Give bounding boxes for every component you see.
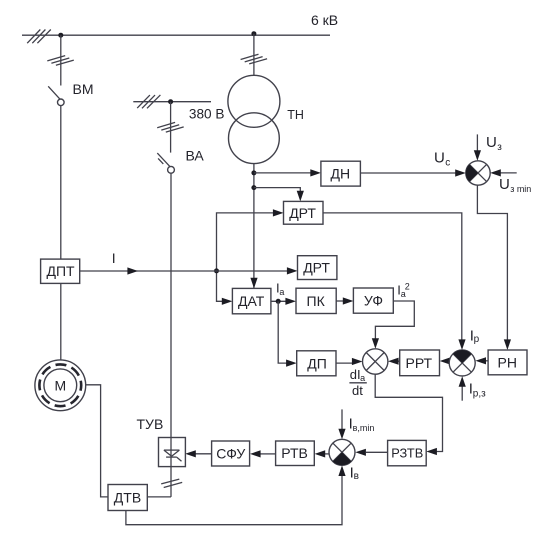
svg-text:ДРТ: ДРТ	[303, 260, 330, 276]
arrow Uz min into summer right	[490, 169, 501, 176]
node DAT output junction	[276, 299, 281, 304]
svg-text:ВМ: ВМ	[73, 81, 94, 97]
thyristor exciter TUV	[137, 416, 186, 467]
svg-text:6 кВ: 6 кВ	[311, 12, 338, 28]
wire motor to DTV	[86, 385, 108, 497]
label Uc	[434, 149, 450, 168]
node bus-VM junction	[58, 33, 63, 38]
label Uz min	[499, 176, 531, 194]
arrow into multiplier left	[352, 358, 363, 365]
wire TN to DRT1 top	[254, 188, 300, 193]
arrow into PK left	[285, 298, 296, 305]
node transformer junction on 6kV bus	[251, 31, 256, 36]
wire U summer to RN	[477, 185, 507, 341]
arrow into sum2 top	[458, 339, 465, 350]
motor M	[35, 360, 86, 411]
switch VA	[157, 147, 204, 173]
block RTV	[276, 441, 315, 466]
svg-text:р: р	[474, 334, 480, 345]
multiplier U2 (dIa/dt)	[363, 349, 388, 374]
wire multiplier output to RZTV	[375, 374, 442, 451]
label Ia2	[397, 281, 410, 299]
svg-text:U: U	[486, 134, 497, 151]
svg-text:U: U	[434, 149, 445, 166]
svg-text:РЗТВ: РЗТВ	[391, 446, 423, 461]
svg-text:c: c	[445, 157, 450, 168]
block DRT1	[284, 201, 324, 224]
arrow into DAT top	[250, 278, 257, 289]
arrow into sum3 right	[355, 449, 366, 456]
arrow into UF left	[343, 297, 354, 304]
arrow into sum3 bottom	[338, 465, 345, 476]
wire TN to DN	[254, 172, 312, 174]
wire Iv.min input	[341, 409, 343, 430]
svg-text:ДАТ: ДАТ	[238, 293, 265, 309]
wire SFU to TUV	[196, 453, 212, 455]
block DAT	[232, 288, 271, 313]
arrow into RRT right	[440, 357, 451, 364]
svg-text:УФ: УФ	[364, 293, 383, 309]
block DPT	[41, 259, 80, 283]
svg-text:380 В: 380 В	[189, 107, 225, 122]
arrow into SFU right	[250, 450, 261, 457]
wire Ip.z input to sum2 bottom	[461, 386, 463, 401]
svg-text:в: в	[354, 471, 359, 482]
svg-text:ДРТ: ДРТ	[289, 205, 316, 221]
block DTV	[108, 485, 147, 511]
arrow into RZTV right	[426, 448, 437, 455]
svg-text:ДТВ: ДТВ	[114, 490, 141, 506]
wire RRT to multiplier	[397, 360, 400, 362]
label Ia	[276, 281, 284, 297]
arrow into RN top	[504, 339, 511, 350]
node TN output to DN	[251, 170, 256, 175]
block RRT	[400, 350, 440, 376]
wire DPT to motor	[60, 283, 62, 360]
wire RTV to SFU	[261, 453, 276, 455]
arrow into DP left	[286, 360, 297, 367]
label Iv.min	[349, 415, 375, 433]
arrow mid I-line	[127, 267, 138, 274]
svg-text:РТВ: РТВ	[281, 445, 308, 461]
wire VA to TUV	[170, 173, 172, 437]
svg-text:a: a	[360, 373, 365, 383]
arrow into sum3 top	[338, 429, 345, 440]
node TN output to DRT1	[251, 185, 256, 190]
wire bus to VM switch	[47, 35, 74, 85]
svg-text:ТН: ТН	[287, 108, 304, 122]
arrow into DRT1 left	[273, 209, 284, 216]
svg-text:РН: РН	[498, 355, 517, 371]
svg-text:U: U	[499, 176, 510, 193]
block PK	[296, 288, 336, 313]
arrow into TUV right	[185, 450, 196, 457]
label Ip.z	[469, 381, 486, 400]
wire RZTV to sum3	[366, 451, 388, 453]
wire sum2 to RRT	[448, 360, 449, 362]
block SFU	[212, 441, 250, 466]
wire DAT output branch to DP	[278, 301, 287, 363]
svg-text:a: a	[279, 287, 284, 297]
label Iv	[350, 465, 359, 482]
wire RN to sum2	[485, 360, 489, 362]
block DN	[321, 161, 361, 186]
wire Uz min input	[500, 172, 517, 174]
arrow into DN left	[310, 169, 321, 176]
arrow into multiplier top	[372, 338, 379, 349]
svg-text:dt: dt	[352, 383, 363, 398]
wire DRT1 output to sum2 top, signal Ip	[323, 213, 462, 341]
node I-line junction	[214, 268, 219, 273]
block UF	[353, 288, 393, 313]
bus 6kV	[22, 30, 330, 44]
label Ip	[470, 328, 480, 345]
wire PK to UF	[336, 300, 344, 302]
arrow into sum2 right	[475, 357, 486, 364]
arrow into DRT2 left	[287, 267, 298, 274]
wire VM to DPT	[60, 106, 62, 259]
summer U4 (field current)	[329, 439, 355, 465]
arrow into DRT1 top	[297, 191, 304, 202]
wire bus to VA switch	[157, 102, 184, 153]
arrow into sum2 bottom	[459, 376, 466, 387]
svg-text:р,з: р,з	[473, 388, 486, 399]
wire TUV to DTV	[147, 467, 182, 497]
node bus-VA junction	[168, 99, 173, 104]
transformer TN	[228, 75, 304, 163]
wire DP to multiplier	[336, 362, 354, 364]
label dIa/dt	[349, 367, 366, 398]
arrow into DAT left	[222, 298, 233, 305]
bus 380V	[133, 95, 211, 108]
svg-text:з min: з min	[510, 184, 531, 194]
block DRT2	[298, 256, 337, 280]
summer U3 (reactive current)	[449, 350, 475, 376]
arrow into U summer left	[455, 169, 466, 176]
block RZTV	[388, 440, 427, 465]
block DP	[297, 351, 336, 376]
svg-text:ДПТ: ДПТ	[47, 263, 76, 279]
svg-text:СФУ: СФУ	[216, 446, 245, 462]
arrow into multiplier right	[388, 358, 399, 365]
wire bus to transformer TN	[241, 34, 268, 76]
svg-text:ДН: ДН	[331, 166, 351, 182]
label Uz	[486, 134, 502, 153]
svg-text:dI: dI	[350, 367, 361, 382]
svg-text:ТУВ: ТУВ	[137, 416, 164, 432]
wire DN to U summer, signal Uc	[360, 172, 456, 174]
svg-text:М: М	[55, 377, 67, 393]
svg-text:ВА: ВА	[186, 147, 205, 163]
svg-text:I: I	[112, 250, 116, 266]
arrow Uz into summer top	[474, 150, 481, 161]
wire UF output to multiplier top	[375, 301, 414, 340]
block RN	[488, 350, 527, 375]
svg-text:в,min: в,min	[353, 423, 375, 433]
svg-text:2: 2	[405, 281, 410, 291]
wire I-line branch to DRT1 left and DAT left	[217, 213, 275, 301]
svg-text:РРТ: РРТ	[406, 355, 433, 371]
wire sum3 to RTV	[325, 453, 329, 455]
wire DAT output to PK	[271, 300, 287, 302]
summer U1 (voltage comparison)	[466, 161, 490, 185]
svg-text:з: з	[497, 142, 502, 153]
wire transformer secondary down to DAT	[253, 163, 255, 288]
svg-text:ПК: ПК	[307, 293, 326, 309]
switch VM	[48, 81, 93, 106]
wire DPT output I-line to DRT2	[80, 270, 288, 272]
wire Uz input	[476, 134, 478, 151]
arrow into RTV right	[315, 450, 326, 457]
svg-text:ДП: ДП	[307, 356, 327, 372]
wire DTV feedback to sum3	[126, 470, 342, 525]
